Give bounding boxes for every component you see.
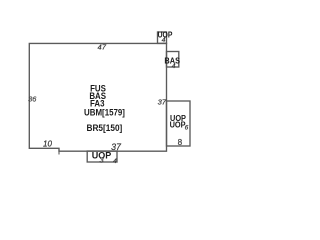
svg-text:6: 6 xyxy=(185,124,189,131)
svg-text:UOP: UOP xyxy=(170,120,186,130)
svg-text:4: 4 xyxy=(162,37,166,44)
svg-text:8: 8 xyxy=(178,138,183,147)
svg-text:4: 4 xyxy=(172,63,176,70)
svg-text:10: 10 xyxy=(43,140,52,149)
svg-text:BR5[150]: BR5[150] xyxy=(86,123,122,133)
svg-text:UBM[1579]: UBM[1579] xyxy=(84,107,125,118)
svg-text:4: 4 xyxy=(113,158,117,165)
svg-text:37: 37 xyxy=(158,97,167,106)
svg-text:37: 37 xyxy=(111,142,122,152)
svg-text:47: 47 xyxy=(97,42,106,51)
svg-text:36: 36 xyxy=(28,95,37,104)
